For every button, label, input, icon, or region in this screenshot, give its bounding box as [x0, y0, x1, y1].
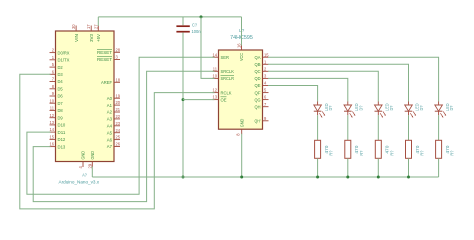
svg-text:D2: D2: [58, 65, 64, 70]
junction R1 / GND bus: [316, 176, 319, 179]
resistor R3 (470): [375, 140, 381, 158]
svg-text:11: 11: [50, 106, 55, 111]
wire LED1 to R1: [317, 115, 319, 140]
svg-text:14: 14: [212, 52, 217, 57]
svg-text:+5V: +5V: [96, 33, 101, 42]
resistor R4 (470): [406, 140, 412, 158]
LED D3: [375, 102, 386, 118]
svg-text:29: 29: [87, 163, 92, 168]
wire +5V to SRCLR pin 10: [201, 17, 215, 79]
junction capacitor / OE: [182, 98, 185, 101]
svg-text:4: 4: [78, 166, 83, 169]
svg-text:VIN: VIN: [74, 34, 79, 42]
wire R3 to GND bus: [377, 158, 379, 177]
resistor R1 (470): [315, 140, 321, 158]
svg-text:R?: R?: [359, 150, 364, 155]
wire OE pin 13: [183, 99, 215, 101]
svg-text:4: 4: [264, 81, 267, 86]
svg-text:A7: A7: [107, 144, 113, 149]
svg-text:GND: GND: [81, 150, 86, 159]
svg-text:QE: QE: [255, 83, 261, 88]
wire D11 to SER: [27, 57, 215, 194]
svg-text:17: 17: [86, 24, 91, 29]
junction R4 / GND bus: [407, 176, 410, 179]
svg-text:21: 21: [116, 107, 121, 112]
svg-text:QD: QD: [255, 76, 262, 81]
svg-text:R?: R?: [329, 150, 334, 155]
wire LED5 to R5: [438, 115, 440, 140]
wire QA to LED5: [268, 57, 439, 101]
svg-text:A2: A2: [107, 110, 113, 115]
svg-text:9: 9: [264, 116, 267, 121]
capacitor C1 top lead: [182, 17, 184, 25]
capacitor C1 (100n): [176, 26, 189, 32]
svg-text:D11: D11: [58, 130, 66, 135]
svg-text:19: 19: [116, 93, 121, 98]
svg-text:9: 9: [52, 91, 55, 96]
svg-text:28: 28: [116, 47, 121, 52]
svg-text:RESET: RESET: [97, 57, 112, 62]
svg-text:GND: GND: [90, 150, 95, 159]
svg-text:15: 15: [49, 135, 54, 140]
svg-text:12: 12: [49, 113, 54, 118]
svg-text:27: 27: [93, 24, 98, 29]
junction +5V rail / SRCLR: [200, 15, 203, 18]
svg-text:R?: R?: [389, 150, 394, 155]
svg-text:D10: D10: [58, 123, 66, 128]
svg-text:2: 2: [264, 66, 267, 71]
svg-text:16: 16: [237, 43, 242, 48]
svg-text:100n: 100n: [192, 29, 202, 34]
svg-text:A1: A1: [107, 103, 113, 108]
svg-text:6: 6: [264, 95, 267, 100]
svg-text:30: 30: [71, 24, 76, 29]
svg-text:10: 10: [212, 74, 217, 79]
svg-text:D12: D12: [58, 137, 66, 142]
svg-text:24: 24: [116, 128, 121, 133]
svg-text:R?: R?: [420, 150, 425, 155]
svg-text:A4: A4: [107, 124, 113, 129]
svg-text:13: 13: [49, 120, 54, 125]
LED D1: [314, 102, 325, 118]
wire R1 to GND bus: [317, 158, 319, 177]
resistor R5 (470): [436, 140, 442, 158]
LED D2: [344, 102, 355, 118]
svg-text:C?: C?: [192, 23, 198, 28]
wire D3 to RCLK: [20, 74, 215, 209]
svg-text:D8: D8: [58, 108, 64, 113]
wire QC to LED3: [268, 71, 378, 101]
svg-text:6: 6: [52, 69, 55, 74]
junction R2 / GND bus: [346, 176, 349, 179]
svg-text:SRCLK: SRCLK: [221, 69, 235, 74]
wire LED4 to R4: [408, 115, 410, 140]
svg-text:R?: R?: [450, 150, 455, 155]
svg-text:14: 14: [49, 127, 54, 132]
svg-text:7: 7: [52, 77, 55, 82]
wire +5V to Arduino pin 27: [97, 17, 99, 26]
svg-text:QG: QG: [255, 97, 261, 102]
svg-text:D?: D?: [358, 105, 363, 110]
svg-text:11: 11: [213, 66, 218, 71]
svg-text:QA: QA: [255, 55, 262, 60]
svg-text:A0: A0: [107, 96, 113, 101]
svg-text:1: 1: [52, 55, 55, 60]
svg-text:1: 1: [264, 59, 267, 64]
svg-text:GND: GND: [239, 118, 244, 127]
svg-text:VCC: VCC: [239, 52, 244, 61]
junction capacitor / GND bus: [182, 176, 185, 179]
svg-text:12: 12: [212, 88, 217, 93]
svg-text:OE: OE: [221, 97, 227, 102]
svg-text:25: 25: [116, 135, 121, 140]
svg-text:5: 5: [52, 62, 55, 67]
svg-text:RESET: RESET: [97, 50, 112, 55]
svg-text:D?: D?: [389, 105, 394, 110]
svg-text:23: 23: [116, 121, 121, 126]
wire Arduino GND pin 29 down: [91, 167, 93, 178]
svg-text:D?: D?: [449, 105, 454, 110]
svg-text:8: 8: [236, 133, 241, 136]
svg-text:D?: D?: [419, 105, 424, 110]
svg-text:SRCLR: SRCLR: [221, 76, 235, 81]
svg-text:D3: D3: [58, 72, 64, 77]
svg-text:A6: A6: [107, 137, 113, 142]
wire LED3 to R3: [377, 115, 379, 140]
wire D13 to SRCLK: [33, 71, 214, 201]
svg-text:20: 20: [116, 100, 121, 105]
svg-text:15: 15: [264, 52, 269, 57]
svg-text:D5: D5: [58, 87, 64, 92]
microcontroller module A? (Arduino Nano): [49, 24, 120, 169]
svg-text:A3: A3: [107, 117, 113, 122]
svg-text:SER: SER: [221, 55, 230, 60]
svg-text:16: 16: [49, 142, 54, 147]
wire +5V to 74HC595 VCC: [241, 17, 243, 46]
wire R2 to GND bus: [347, 158, 349, 177]
svg-text:10: 10: [49, 98, 54, 103]
svg-text:D4: D4: [58, 79, 64, 84]
svg-text:3V3: 3V3: [89, 34, 94, 42]
svg-text:QB: QB: [255, 62, 261, 67]
svg-text:D?: D?: [328, 105, 333, 110]
svg-text:2: 2: [52, 48, 55, 53]
wire GND bus: [92, 176, 438, 178]
svg-text:D0/RX: D0/RX: [58, 50, 70, 55]
svg-text:3: 3: [264, 74, 267, 79]
svg-text:A5: A5: [107, 130, 113, 135]
wire QD to LED2: [268, 78, 348, 101]
wire QB to LED4: [268, 64, 409, 101]
svg-text:QH': QH': [255, 119, 261, 124]
svg-text:5: 5: [264, 88, 267, 93]
wire LED2 to R2: [347, 115, 349, 140]
wire QE to LED1: [268, 86, 318, 102]
svg-text:AREF: AREF: [101, 80, 112, 85]
wire R4 to GND bus: [408, 158, 410, 177]
svg-text:D13: D13: [58, 144, 66, 149]
LED D5: [435, 102, 446, 118]
svg-text:13: 13: [212, 95, 217, 100]
svg-text:QF: QF: [255, 90, 261, 95]
svg-text:8: 8: [52, 84, 55, 89]
svg-text:7: 7: [264, 102, 267, 107]
svg-text:D9: D9: [58, 115, 64, 120]
svg-text:3: 3: [116, 55, 119, 60]
svg-text:QH: QH: [255, 104, 261, 109]
svg-text:26: 26: [116, 142, 121, 147]
junction 74HC595 GND / bus: [240, 176, 243, 179]
svg-text:A?: A?: [82, 172, 87, 177]
svg-text:22: 22: [116, 114, 121, 119]
LED D4: [405, 102, 416, 118]
wire capacitor C1 to GND bus: [182, 33, 184, 177]
wire R5 to GND bus: [438, 158, 440, 177]
svg-text:RCLK: RCLK: [221, 90, 233, 95]
svg-text:Arduino_Nano_v3.x: Arduino_Nano_v3.x: [59, 180, 100, 185]
svg-text:D6: D6: [58, 94, 64, 99]
svg-text:QC: QC: [255, 69, 262, 74]
svg-text:D7: D7: [58, 101, 64, 106]
svg-text:18: 18: [116, 77, 121, 82]
shift register U1 (74HC595): [212, 43, 269, 136]
junction R3 / GND bus: [377, 176, 380, 179]
svg-text:D1/TX: D1/TX: [58, 58, 70, 63]
wire 74HC595 GND down: [241, 134, 243, 177]
wire +5V rail: [98, 16, 241, 18]
resistor R2 (470): [345, 140, 351, 158]
